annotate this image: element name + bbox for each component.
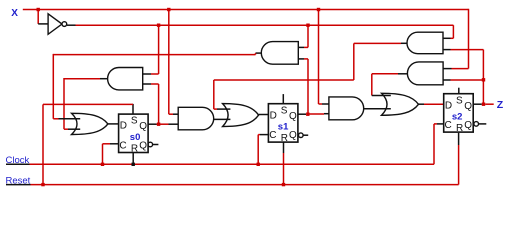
svg-text:Q: Q xyxy=(289,111,297,122)
svg-text:R: R xyxy=(281,133,288,144)
svg-text:C: C xyxy=(119,141,126,152)
svg-text:S: S xyxy=(456,95,463,106)
svg-text:D: D xyxy=(270,110,277,121)
svg-text:C: C xyxy=(445,120,452,131)
svg-text:C: C xyxy=(269,130,276,141)
svg-text:D: D xyxy=(445,100,452,111)
svg-text:s2: s2 xyxy=(452,112,463,123)
svg-text:Reset: Reset xyxy=(6,175,31,186)
svg-text:Q: Q xyxy=(139,121,147,132)
svg-text:R: R xyxy=(131,143,138,154)
svg-text:s1: s1 xyxy=(278,122,289,133)
svg-text:D: D xyxy=(120,121,127,132)
svg-text:Q: Q xyxy=(464,101,472,112)
svg-text:Q: Q xyxy=(289,130,297,141)
svg-text:S: S xyxy=(131,116,138,127)
svg-text:S: S xyxy=(281,105,288,116)
svg-text:Clock: Clock xyxy=(6,155,30,166)
svg-text:Q: Q xyxy=(139,141,147,152)
svg-text:Z: Z xyxy=(497,99,504,111)
svg-text:R: R xyxy=(456,123,463,134)
svg-text:s0: s0 xyxy=(130,132,141,143)
svg-text:X: X xyxy=(11,8,18,19)
svg-text:Q: Q xyxy=(464,120,472,131)
